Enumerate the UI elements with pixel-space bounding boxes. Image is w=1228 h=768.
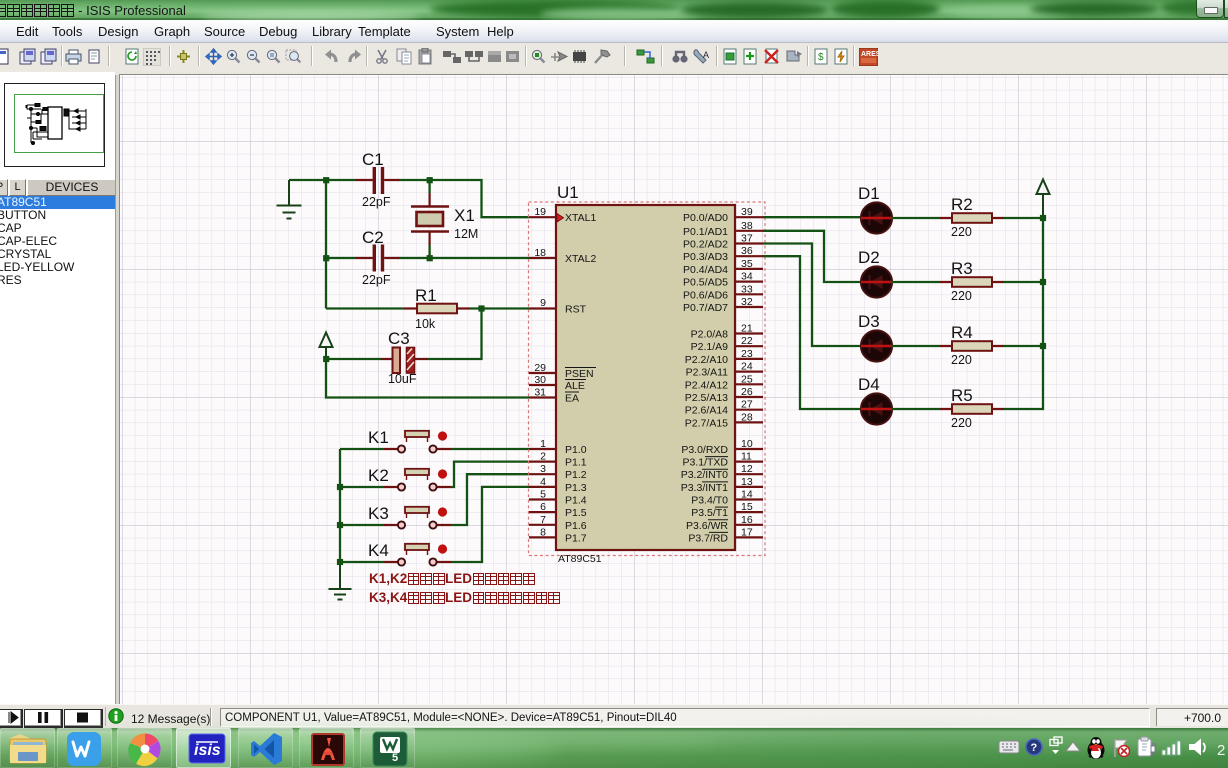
svg-text:8: 8 xyxy=(540,526,546,538)
wire K3 row xyxy=(340,524,384,526)
wire pin39 to D1 xyxy=(763,216,861,218)
svg-text:P2.2/A10: P2.2/A10 xyxy=(685,354,728,366)
svg-text:11: 11 xyxy=(741,451,752,463)
wire xyxy=(470,307,529,309)
LED D3 xyxy=(858,312,892,362)
svg-text:29: 29 xyxy=(534,362,546,374)
svg-text:P3.3/INT1: P3.3/INT1 xyxy=(681,482,728,494)
svg-text:4: 4 xyxy=(540,476,546,488)
wire xyxy=(289,179,355,181)
svg-text:P2.5/A13: P2.5/A13 xyxy=(685,392,728,404)
wire xyxy=(326,358,381,360)
resistor R2 xyxy=(940,195,1004,239)
node junction bus-R4 xyxy=(1040,343,1046,349)
resistor R3 xyxy=(940,259,1004,303)
svg-text:P2.6/A14: P2.6/A14 xyxy=(685,405,728,417)
LED D2 xyxy=(858,248,892,298)
resistor R1 xyxy=(404,286,470,331)
svg-text:18: 18 xyxy=(534,247,546,259)
svg-text:U1: U1 xyxy=(557,183,579,202)
svg-text:10uF: 10uF xyxy=(388,372,417,386)
svg-text:P0.0/AD0: P0.0/AD0 xyxy=(683,212,728,224)
annotation text line1 xyxy=(369,571,535,586)
svg-text:P1.7: P1.7 xyxy=(565,532,587,544)
svg-text:?: ? xyxy=(1031,742,1038,754)
node junction bus-R2 xyxy=(1040,215,1046,221)
svg-text:24: 24 xyxy=(741,361,753,373)
maximize button sliver xyxy=(1224,0,1228,18)
INT0 overline xyxy=(702,468,728,470)
svg-text:D1: D1 xyxy=(858,184,880,203)
wire pin36 to D4 xyxy=(763,256,861,409)
U1 right pin stubs P0 xyxy=(735,217,763,307)
resistor R5 xyxy=(940,386,1004,430)
wire D3 to R4 xyxy=(892,345,940,347)
svg-text:34: 34 xyxy=(741,271,753,283)
svg-text:P1.5: P1.5 xyxy=(565,507,587,519)
svg-text:220: 220 xyxy=(951,353,972,367)
LED D4 xyxy=(858,375,892,425)
svg-text:AT89C51: AT89C51 xyxy=(558,553,602,565)
wire xyxy=(398,257,529,259)
svg-text:220: 220 xyxy=(951,225,972,239)
U1 right pin labels P2 xyxy=(685,329,728,430)
svg-text:P0.1/AD1: P0.1/AD1 xyxy=(683,226,728,238)
INT1 overline xyxy=(702,481,728,483)
pin XTAL1 clock arrow xyxy=(557,214,564,223)
svg-text:P0.3/AD3: P0.3/AD3 xyxy=(683,251,728,263)
svg-text:PSEN: PSEN xyxy=(565,368,594,380)
wire K1 to pin1 xyxy=(451,448,529,450)
minimize button xyxy=(1196,0,1224,18)
svg-text:P1.1: P1.1 xyxy=(565,457,587,469)
svg-text:6: 6 xyxy=(540,501,546,513)
svg-text:K3: K3 xyxy=(368,504,389,523)
wire R4 to bus xyxy=(1004,345,1043,347)
wire pin38 to D2 xyxy=(763,231,861,282)
node junction K2 xyxy=(337,484,343,490)
resistor R4 xyxy=(940,323,1004,367)
wire R5 to bus corner xyxy=(1004,218,1043,409)
svg-text:R4: R4 xyxy=(951,323,973,342)
svg-text:XTAL1: XTAL1 xyxy=(565,212,596,224)
svg-text:P0.6/AD6: P0.6/AD6 xyxy=(683,289,728,301)
wire D1 to R2 xyxy=(892,217,940,219)
svg-text:P3.4/T0: P3.4/T0 xyxy=(691,495,728,507)
svg-text:R2: R2 xyxy=(951,195,973,214)
svg-text:31: 31 xyxy=(534,387,546,399)
node junction K3 xyxy=(337,522,343,528)
wire R2 to bus xyxy=(1004,217,1043,219)
svg-text:P3.1/TXD: P3.1/TXD xyxy=(682,457,728,469)
svg-text:R3: R3 xyxy=(951,259,973,278)
annotation text line2 xyxy=(369,590,560,605)
svg-text:36: 36 xyxy=(741,245,753,257)
svg-text:37: 37 xyxy=(741,233,753,245)
svg-text:2: 2 xyxy=(540,451,546,463)
svg-text:38: 38 xyxy=(741,220,753,232)
svg-text:P1.0: P1.0 xyxy=(565,444,587,456)
svg-text:D2: D2 xyxy=(858,248,880,267)
RD overline xyxy=(709,531,728,533)
svg-text:K4: K4 xyxy=(368,541,389,560)
svg-text:P3.0/RXD: P3.0/RXD xyxy=(681,444,728,456)
wire K2 row xyxy=(340,486,384,488)
svg-text:P2.1/A9: P2.1/A9 xyxy=(691,341,729,353)
svg-text:12M: 12M xyxy=(454,227,478,241)
svg-text:32: 32 xyxy=(741,296,753,308)
svg-text:A: A xyxy=(703,50,709,60)
svg-text:P0.5/AD5: P0.5/AD5 xyxy=(683,277,728,289)
PSEN overline xyxy=(565,367,596,369)
svg-text:C3: C3 xyxy=(388,329,410,348)
svg-text:13: 13 xyxy=(741,476,753,488)
op-amp U1 body AT89C51 xyxy=(556,205,735,550)
svg-text:26: 26 xyxy=(741,386,753,398)
ground xyxy=(329,563,352,600)
power arrow VCC-C3 xyxy=(320,333,333,360)
wire K3 to pin3 xyxy=(451,474,529,525)
pin numbers 21-28 xyxy=(741,323,753,424)
wire R3 to bus xyxy=(1004,281,1043,283)
U1 right pin labels P3 xyxy=(681,444,729,544)
svg-text:21: 21 xyxy=(741,323,753,335)
capacitor C2 xyxy=(355,228,399,287)
svg-text:39: 39 xyxy=(741,206,753,218)
crystal X1 xyxy=(411,180,478,258)
capacitor C3 polarized xyxy=(381,329,428,386)
svg-text:P3.5/T1: P3.5/T1 xyxy=(691,507,728,519)
svg-text:10: 10 xyxy=(741,438,753,450)
svg-text:30: 30 xyxy=(534,374,546,386)
wire K2 to pin2 xyxy=(451,462,529,487)
svg-text:17: 17 xyxy=(741,526,753,538)
svg-text:$: $ xyxy=(818,52,824,63)
node junction C1-left xyxy=(323,177,329,183)
svg-text:EA: EA xyxy=(565,393,579,405)
svg-text:15: 15 xyxy=(741,501,753,513)
svg-text:isis: isis xyxy=(194,742,221,759)
svg-text:D3: D3 xyxy=(858,312,880,331)
wire xyxy=(326,307,404,309)
svg-text:28: 28 xyxy=(741,411,753,423)
wire pin37 to D3 xyxy=(763,244,861,347)
wire K1 row xyxy=(340,448,384,450)
svg-text:K1: K1 xyxy=(368,428,389,447)
svg-text:5: 5 xyxy=(392,752,398,764)
svg-text:R5: R5 xyxy=(951,386,973,405)
wire K4 to pin4 xyxy=(451,487,529,562)
power arrow VCC bus xyxy=(1037,180,1050,219)
svg-text:14: 14 xyxy=(741,489,753,501)
wire xyxy=(398,180,529,217)
svg-text:22pF: 22pF xyxy=(362,195,391,209)
svg-text:P2.7/A15: P2.7/A15 xyxy=(685,417,728,429)
U1 right pin labels P0 xyxy=(683,212,728,314)
svg-text:33: 33 xyxy=(741,283,753,295)
svg-text:P2.4/A12: P2.4/A12 xyxy=(685,379,728,391)
TXD overline xyxy=(705,456,728,458)
svg-text:P1.2: P1.2 xyxy=(565,469,587,481)
ALE overline xyxy=(565,379,586,381)
svg-text:3: 3 xyxy=(540,463,546,475)
svg-text:7: 7 xyxy=(540,514,546,526)
wire xyxy=(325,180,327,309)
svg-text:22pF: 22pF xyxy=(362,273,391,287)
button K2 xyxy=(368,466,451,491)
svg-text:D4: D4 xyxy=(858,375,880,394)
U1 selection dashed box xyxy=(529,202,766,556)
svg-text:19: 19 xyxy=(534,206,546,218)
svg-text:P3.7/RD: P3.7/RD xyxy=(688,532,728,544)
T1 overline xyxy=(715,506,728,508)
svg-text:P0.7/AD7: P0.7/AD7 xyxy=(683,302,728,314)
node junction xtal-top xyxy=(427,177,433,183)
svg-text:27: 27 xyxy=(741,399,753,411)
svg-text:K2: K2 xyxy=(368,466,389,485)
svg-text:P2.0/A8: P2.0/A8 xyxy=(691,329,729,341)
svg-text:10k: 10k xyxy=(415,317,436,331)
node junction xtal-bottom xyxy=(427,255,433,261)
button K3 xyxy=(368,504,451,529)
svg-text:35: 35 xyxy=(741,258,753,270)
svg-text:12: 12 xyxy=(741,463,753,475)
U1 left pin stubs xyxy=(529,217,556,537)
WR overline xyxy=(708,519,728,521)
svg-text:5: 5 xyxy=(540,489,546,501)
node junction bus-R3 xyxy=(1040,279,1046,285)
svg-text:P1.4: P1.4 xyxy=(565,495,587,507)
wire EA net xyxy=(326,359,529,398)
wire D2 to R3 xyxy=(892,281,940,283)
svg-text:C2: C2 xyxy=(362,228,384,247)
svg-text:9: 9 xyxy=(540,297,546,309)
svg-text:22: 22 xyxy=(741,335,753,347)
pin numbers 39-32 xyxy=(741,206,753,308)
wire K trunk xyxy=(339,449,341,563)
U1 left pin labels xyxy=(565,212,596,544)
svg-text:P3.2/INT0: P3.2/INT0 xyxy=(681,469,728,481)
svg-text:XTAL2: XTAL2 xyxy=(565,253,596,265)
node junction K4 xyxy=(337,559,343,565)
svg-text:P1.3: P1.3 xyxy=(565,482,587,494)
ground xyxy=(277,180,302,219)
svg-text:ARES: ARES xyxy=(861,51,878,58)
U1 right pin stubs P3 xyxy=(735,449,763,537)
svg-text:R1: R1 xyxy=(415,286,437,305)
svg-text:P0.2/AD2: P0.2/AD2 xyxy=(683,239,728,251)
svg-text:23: 23 xyxy=(741,348,753,360)
svg-text:220: 220 xyxy=(951,289,972,303)
svg-text:P2.3/A11: P2.3/A11 xyxy=(686,367,729,379)
svg-text:X1: X1 xyxy=(454,206,475,225)
button K1 xyxy=(368,428,451,453)
wire xyxy=(428,309,482,360)
U1 right pin stubs P2 xyxy=(735,334,763,423)
wire xyxy=(326,257,355,259)
svg-text:P1.6: P1.6 xyxy=(565,520,587,532)
svg-text:1: 1 xyxy=(540,438,546,450)
svg-text:ALE: ALE xyxy=(565,380,585,392)
EA overline xyxy=(565,391,579,393)
svg-text:220: 220 xyxy=(951,416,972,430)
node junction C2-left xyxy=(323,255,329,261)
node junction C3-left xyxy=(323,356,329,362)
capacitor C1 xyxy=(355,150,399,209)
svg-text:25: 25 xyxy=(741,373,753,385)
LED D1 xyxy=(858,184,892,234)
wire K4 row xyxy=(340,561,384,563)
svg-text:P0.4/AD4: P0.4/AD4 xyxy=(683,264,728,276)
wire D4 to R5 xyxy=(892,408,940,410)
pin numbers 1-8 xyxy=(540,438,546,538)
svg-text:C1: C1 xyxy=(362,150,384,169)
pin numbers 10-17 xyxy=(741,438,753,538)
svg-text:P3.6/WR: P3.6/WR xyxy=(686,520,728,532)
button K4 xyxy=(368,541,451,566)
node junction R1-C3 xyxy=(478,305,484,311)
svg-text:RST: RST xyxy=(565,304,587,316)
svg-text:16: 16 xyxy=(741,514,753,526)
